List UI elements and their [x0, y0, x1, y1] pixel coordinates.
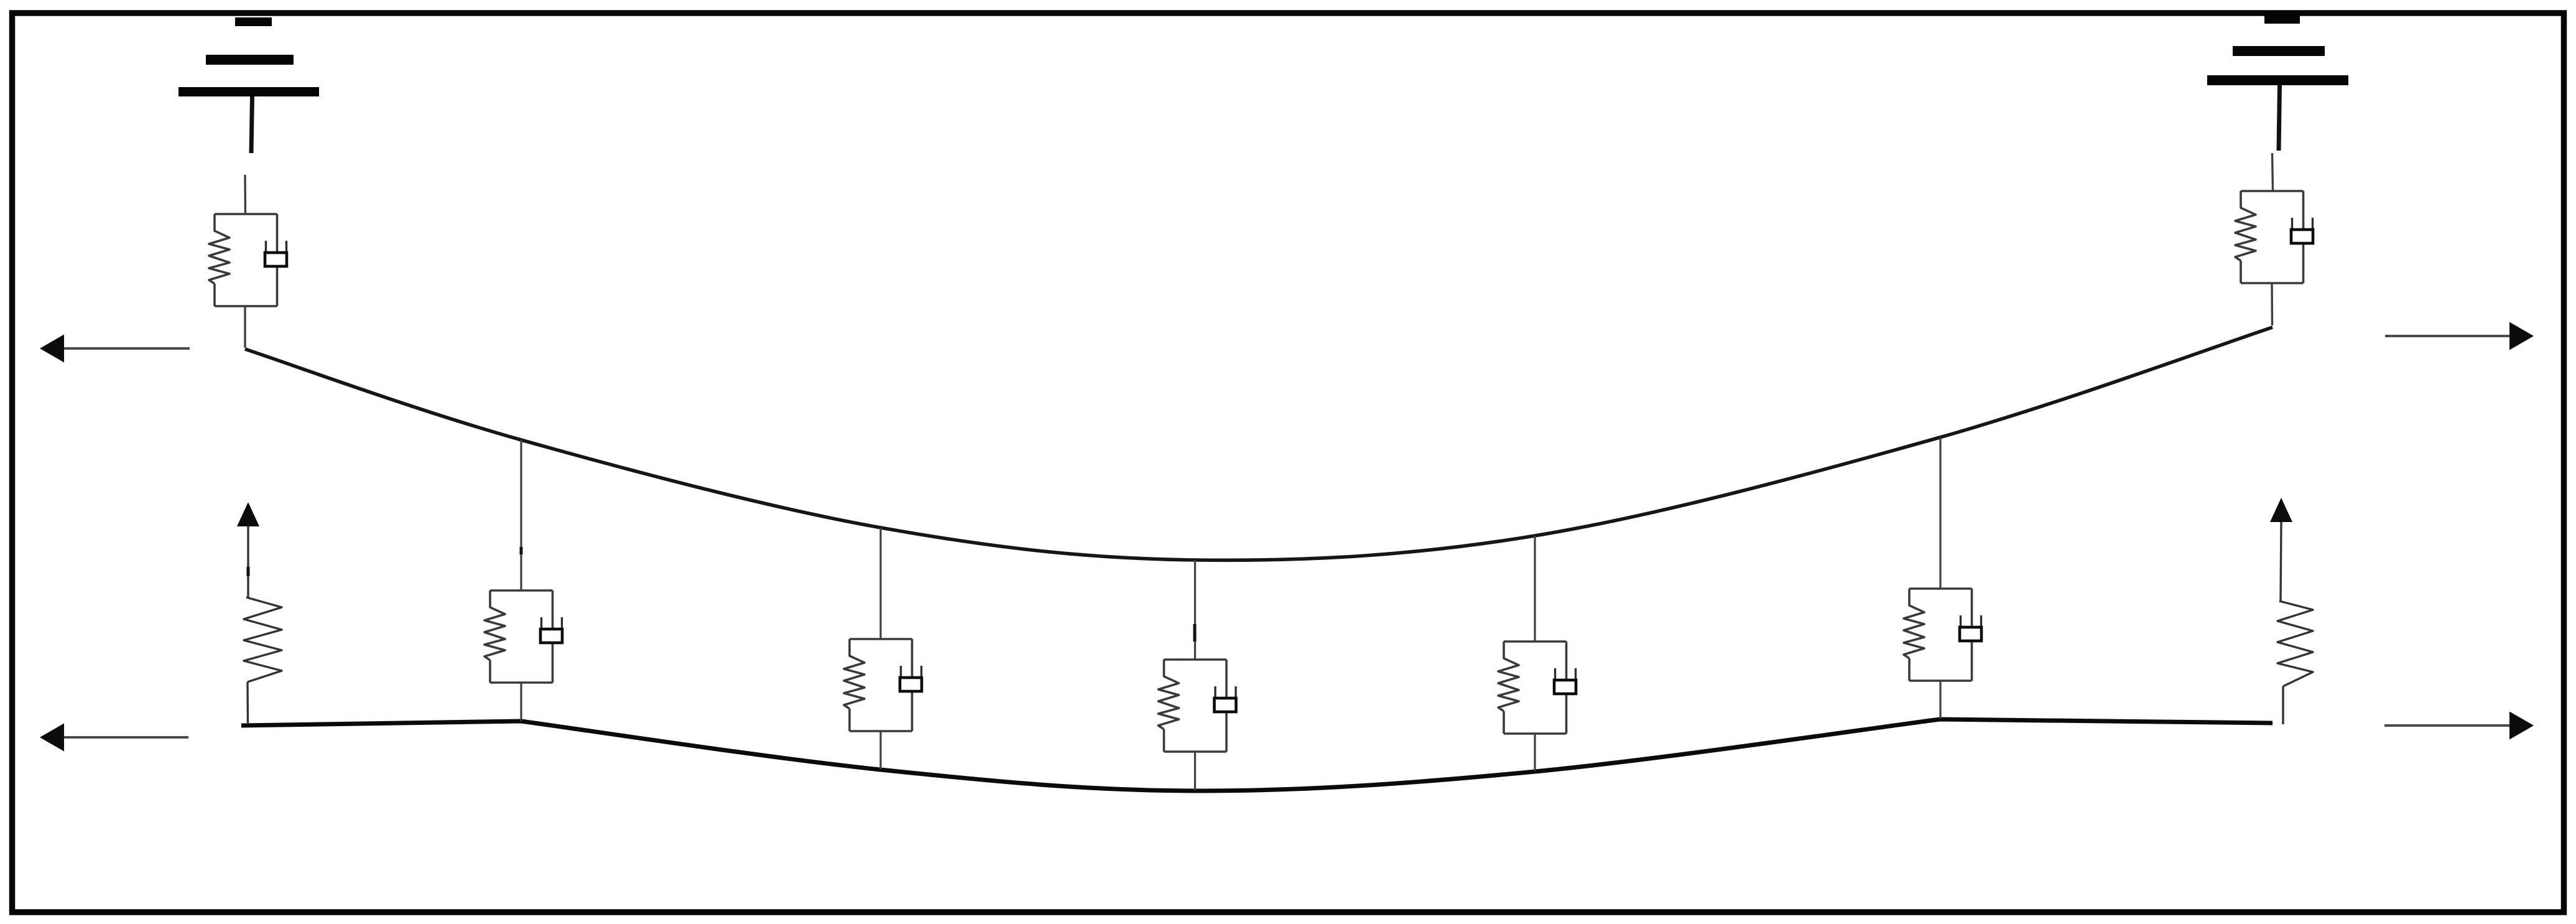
tension arrow lower-left: [62, 736, 188, 739]
spring-damper unit KL (left suspension): [209, 214, 287, 306]
support spring right: [2277, 601, 2313, 686]
spring-damper unit D3: [1159, 660, 1236, 752]
support rod right (thin): [2273, 153, 2273, 191]
contact wire (lower cable): [241, 719, 2273, 791]
tension arrow upper-right: [2385, 335, 2511, 337]
messenger cable (upper catenary): [245, 327, 2273, 560]
dropper 3 (lower): [1194, 752, 1196, 790]
dropper 5 (upper): [1939, 437, 1941, 589]
dropper 3 (upper): [1194, 560, 1196, 660]
link rod to right anchor: [2271, 283, 2273, 325]
dropper 1 (lower): [520, 683, 522, 721]
left spring foot: [246, 682, 249, 723]
link rod to left anchor: [244, 306, 246, 348]
support spring left: [244, 597, 282, 682]
tick on left arrow shaft: [247, 567, 250, 576]
spring-damper unit KR (right suspension): [2235, 191, 2313, 283]
uplift arrow left: [237, 502, 259, 526]
fixed support right (stacked bars): [2207, 13, 2348, 85]
support rod left (thick): [251, 96, 253, 153]
tension arrow lower-right: [2384, 724, 2511, 727]
right spring foot: [2282, 686, 2284, 724]
tension arrow upper-left: [62, 347, 190, 350]
spring-damper unit D1: [484, 590, 562, 683]
spring-damper unit D4: [1498, 642, 1576, 734]
support rod left (thin): [244, 175, 246, 214]
tick on dropper 3: [1193, 624, 1197, 642]
dropper 4 (upper): [1534, 536, 1536, 642]
tick on dropper 1: [520, 547, 523, 554]
dropper 2 (lower): [879, 731, 881, 769]
uplift arrow right: [2270, 498, 2292, 522]
support rod right (thick): [2279, 85, 2280, 151]
dropper 2 (upper): [879, 528, 881, 639]
spring-damper unit D5: [1904, 589, 1981, 681]
dropper 1 (upper): [520, 440, 522, 590]
fixed support left (stacked bars): [178, 17, 319, 96]
dropper 4 (lower): [1534, 734, 1536, 771]
spring-damper unit D2: [844, 639, 922, 731]
dropper 5 (lower): [1939, 681, 1941, 719]
